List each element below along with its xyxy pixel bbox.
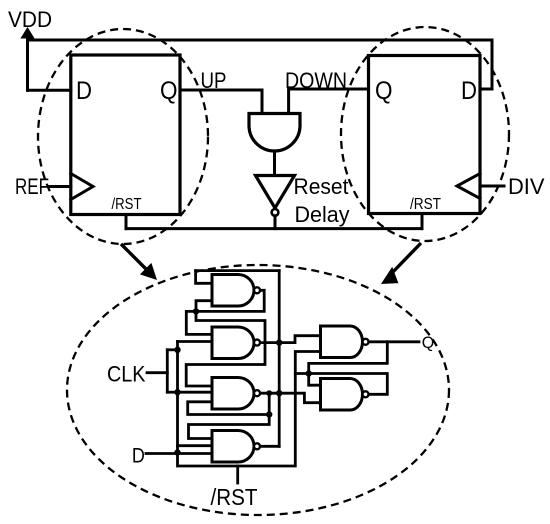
svg-text:REF: REF — [15, 174, 49, 199]
svg-text:/RST: /RST — [112, 196, 142, 213]
svg-text:UP: UP — [201, 68, 227, 93]
svg-text:DOWN: DOWN — [285, 68, 347, 93]
svg-text:D: D — [132, 445, 145, 468]
svg-text:Q: Q — [160, 77, 178, 105]
svg-text:Reset: Reset — [294, 174, 349, 199]
svg-text:DIV: DIV — [508, 174, 545, 199]
svg-text:Q: Q — [375, 77, 393, 105]
svg-text:Q: Q — [422, 333, 435, 352]
svg-text:D: D — [76, 77, 92, 105]
svg-text:VDD: VDD — [8, 7, 52, 32]
svg-text:D: D — [461, 77, 477, 105]
svg-text:CLK: CLK — [107, 361, 146, 386]
svg-text:/RST: /RST — [211, 484, 258, 510]
svg-text:/RST: /RST — [410, 196, 441, 213]
svg-text:Delay: Delay — [295, 202, 350, 227]
